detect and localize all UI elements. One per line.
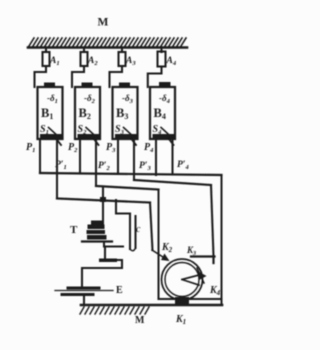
svg-text:E: E [116,285,123,296]
svg-text:T: T [70,224,78,236]
svg-text:A4: A4 [166,56,177,67]
relay box B3 [113,87,138,139]
svg-text:P3: P3 [106,142,116,154]
battery E plate long [55,290,113,292]
T lower plate [82,240,112,242]
K3 contact bar [191,257,215,264]
svg-text:K2: K2 [161,242,173,254]
wire A3 to B3 [110,66,123,87]
bus L3 P'1 to K2 [57,199,150,203]
unit 4 drop wire [160,48,162,52]
armature bar B2 [78,134,100,139]
svg-text:P′4: P′4 [177,160,189,171]
T foot [99,259,117,263]
svg-text:A2: A2 [87,56,98,67]
top wall hatching [29,38,186,46]
bus L2 P'2 to K area [96,186,159,190]
bottom ground bar [81,304,222,307]
svg-text:A1: A1 [49,56,60,67]
wire T branch [102,187,104,224]
wire K3 riser [211,185,214,256]
battery E plate top [68,287,99,290]
svg-text:M: M [98,17,109,29]
bottom hatching [80,307,149,314]
wire P1 armature down [39,139,41,173]
armature lever B2 [86,128,97,138]
contact tick B1 [57,139,62,145]
bus L2a P'3 to K3 [134,180,211,185]
relay box B4 [150,87,175,139]
relay box B2 [75,87,100,139]
svg-text:P2: P2 [68,142,78,154]
wire A1 to B1 [35,66,47,87]
fuse A4 [158,52,166,67]
svg-text:B4: B4 [154,106,166,121]
svg-text:K3: K3 [186,245,196,257]
contact tick B2 [94,139,99,145]
armature bar B4 [153,134,175,139]
contact tick B4 [169,139,174,145]
wire K2 riser [150,203,153,251]
svg-text:P1: P1 [26,142,35,154]
brush arm [182,275,201,286]
wire P'3 down [133,139,135,180]
svg-text:P4: P4 [144,142,154,154]
svg-text:A3: A3 [125,56,136,67]
armature lever B1 [49,128,60,138]
terminal blob B1 [44,83,55,88]
wire right riser to ground [221,175,223,305]
wire P4 armature down [155,139,157,175]
fuse A1 [43,52,50,66]
bus L1 armatures to right [40,173,222,175]
arrow K2 to circle [152,250,166,259]
armature lever B3 [124,128,135,138]
transmitter T button stack [87,221,107,240]
relay box B1 [38,87,63,139]
K1 contact blob [175,297,189,306]
wire A2 to B2 [72,66,84,87]
T stand [103,243,105,247]
wire P2 armature down [79,139,81,174]
fuse A3 [119,52,126,66]
wire P'1 down [56,139,58,199]
svg-text:-δ3: -δ3 [122,93,134,105]
wire P'2 down [95,139,97,186]
svg-text:P′2: P′2 [98,161,110,172]
wire under circle [159,298,222,300]
unit 1 drop wire [45,48,47,52]
fuse A2 [81,52,88,66]
unit 3 drop wire [121,48,123,52]
wire K-left riser [158,190,160,300]
terminal blob B2 [82,83,93,88]
svg-text:B1: B1 [41,106,53,121]
wire stand to battery [82,260,122,287]
wire battery to ground [83,296,85,305]
svg-text:K4: K4 [209,285,221,297]
svg-text:c: c [136,224,141,235]
svg-text:M: M [135,315,145,326]
armature lever B4 [161,128,172,138]
capacitor C plates [130,214,136,250]
top wall bar [28,46,187,49]
svg-text:-δ2: -δ2 [84,93,96,105]
wire P'4 down [171,139,173,175]
svg-text:K1: K1 [175,314,186,326]
battery E plate bottom [62,293,93,296]
svg-text:B3: B3 [116,106,128,121]
contact tick B3 [132,139,137,145]
terminal blob B3 [119,83,130,88]
svg-text:-δ1: -δ1 [47,93,58,105]
armature bar B3 [115,134,137,139]
distributor circle outer [162,259,203,300]
svg-text:-δ4: -δ4 [159,93,171,105]
wire P3 armature down [117,139,119,174]
svg-text:B2: B2 [79,106,91,121]
brush star [198,271,207,280]
junction blob [100,197,106,202]
distributor circle inner [165,263,199,297]
armature bar B1 [40,134,62,139]
terminal blob B4 [159,82,171,88]
wire A4 to B4 [148,67,162,88]
unit 2 drop wire [83,48,85,52]
svg-text:P′3: P′3 [139,161,151,172]
wire C branch [116,200,130,214]
